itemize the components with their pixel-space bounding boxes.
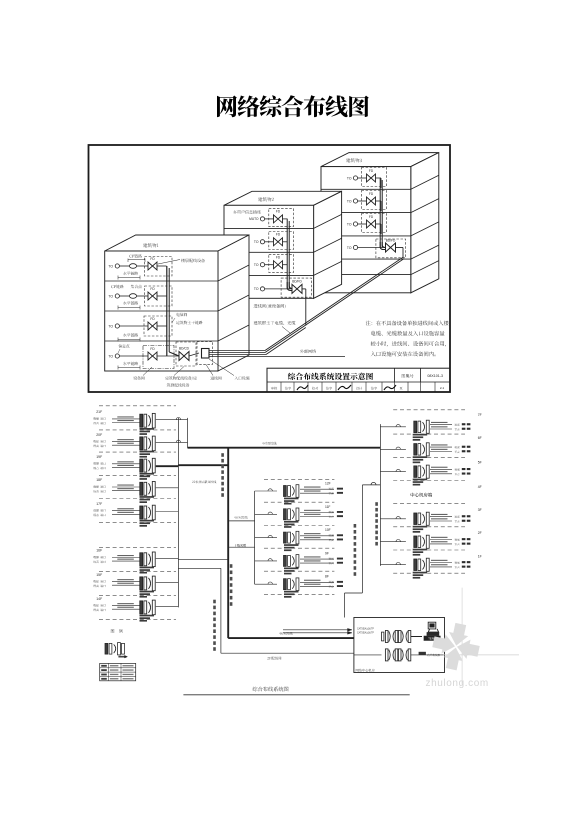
- svg-text:TO: TO: [254, 287, 259, 291]
- machine room row1 symbols: [385, 631, 388, 643]
- B1 floor2 wire TO-CP: [119, 295, 129, 297]
- B1 floor1 CP consolidation point: [129, 264, 136, 269]
- group D row 3 feed wire: [380, 471, 406, 473]
- group B row 14F panel text: [140, 615, 155, 617]
- B3 riser backbone: [379, 178, 381, 248]
- group A row 21F cable labels: [117, 416, 134, 417]
- svg-text:10F: 10F: [325, 528, 331, 532]
- B1 floor3 telecom room label: [177, 313, 188, 317]
- group C row 9F feed wire: [255, 560, 277, 562]
- B2 floor2 FD dashed box: [269, 232, 294, 250]
- page title: [217, 95, 369, 117]
- B1 floor1 equipment label: [181, 259, 205, 263]
- svg-text:2-1: 2-1: [440, 386, 445, 390]
- machine room feed to group D: [362, 484, 380, 486]
- B2 floor3 riser stub: [283, 264, 288, 266]
- group D row 6 patch panel: [414, 559, 417, 571]
- group A thick feeder to trunk: [178, 464, 228, 466]
- legend table: [100, 663, 136, 680]
- group A row 19F patch panel: [140, 459, 143, 472]
- svg-text:15F: 15F: [96, 573, 102, 577]
- B1 floor1 wire TO-CP: [119, 265, 129, 267]
- svg-text:6F: 6F: [478, 436, 482, 440]
- group B row 14F patch panel: [140, 601, 143, 614]
- group D row 6 output wires: [430, 562, 452, 564]
- group D row 2 port marks: [462, 446, 466, 448]
- B2 BD/FD distributor: [292, 284, 297, 293]
- campus backbone label: [254, 321, 296, 325]
- building B2 outline: [224, 191, 342, 205]
- svg-text:4F: 4F: [478, 485, 482, 489]
- group C row 8F patch panel: [284, 579, 287, 590]
- group D row 6 port labels: [455, 562, 460, 564]
- machine room riser thin L: [220, 568, 222, 653]
- group C row 11F feed wire: [255, 513, 277, 515]
- vertical cable label col 5: [354, 524, 357, 528]
- group A row 18F patch panel: [140, 482, 143, 495]
- main trunk top horizontal: [188, 447, 381, 449]
- svg-text:FD: FD: [369, 215, 374, 219]
- B1 entrance dashed box: [197, 342, 213, 365]
- group C row 9F port labels: [329, 558, 334, 560]
- svg-text:TO: TO: [347, 222, 352, 226]
- group D row 2 port labels: [455, 446, 460, 448]
- group D row 5 cable labels: [431, 537, 448, 538]
- vertical cable label col 4: [375, 502, 378, 506]
- svg-text:TO: TO: [108, 354, 113, 358]
- svg-text:TO: TO: [254, 240, 259, 244]
- group D row 5 panel text: [413, 549, 428, 551]
- group A row 17F input wires: [112, 510, 140, 512]
- group D row 1 patch panel: [414, 421, 417, 433]
- group B feeder to trunk: [178, 558, 228, 560]
- B3 floor4 wire TO-BD: [358, 247, 385, 249]
- machine room row2 wire in: [354, 654, 382, 656]
- trunk branch to group C 2: [228, 546, 254, 548]
- title block atlas-no label: [402, 374, 414, 378]
- B1 floor2 horizontal-link label: [123, 301, 138, 305]
- machine room row1 wire to terminal: [411, 636, 422, 638]
- B3 floor1 FD dashed box: [362, 168, 387, 187]
- group D row 3 port marks: [462, 468, 466, 470]
- svg-text:3F: 3F: [478, 508, 482, 512]
- group C row 8F output wires: [300, 581, 334, 583]
- svg-text:9F: 9F: [325, 551, 329, 555]
- group D row 6 feed wire: [380, 564, 406, 566]
- group D row 4 cable labels: [431, 514, 448, 515]
- group C row 12F output wires: [300, 488, 334, 490]
- B1 floor2 wire CP-FD: [137, 295, 148, 297]
- external network line: [209, 356, 345, 358]
- terminal base: [427, 632, 440, 636]
- group D row 4 panel text: [413, 526, 428, 528]
- feeder count label: [192, 481, 216, 484]
- group A row 21F panel text: [140, 428, 155, 430]
- group D row 2 feed wire: [380, 448, 406, 450]
- group D row 4 patch panel: [414, 513, 417, 525]
- group C row 11F port labels: [329, 511, 334, 513]
- vertical cable label col 1: [221, 453, 224, 457]
- group A row 20F patch panel: [140, 437, 143, 450]
- svg-text:1F: 1F: [478, 554, 482, 558]
- group A row 17F panel text: [140, 520, 155, 522]
- group C row 12F cable labels: [304, 487, 321, 488]
- B1 floor4 wire FD-BD: [157, 355, 179, 357]
- B1 floor2 riser stub: [157, 295, 167, 297]
- machine room row2 fiber label: [419, 652, 426, 655]
- B1 floor4 info-point label: [118, 344, 129, 348]
- group B row 16F port labels: [93, 556, 105, 559]
- B1 floor4 wire TO-FD: [119, 355, 148, 357]
- B1 floor3 FD distributor: [148, 322, 153, 330]
- group B row 14F output wire: [156, 605, 179, 607]
- svg-text:TO: TO: [108, 264, 113, 268]
- title block: [267, 368, 450, 392]
- campus backbone cable bundle: [209, 350, 265, 352]
- group D row 4 output wires: [430, 516, 452, 518]
- B1 floor1 FD dashed box: [145, 257, 173, 277]
- group B row 16F cable labels: [117, 555, 134, 556]
- svg-text:FD: FD: [369, 169, 374, 173]
- svg-text:TO: TO: [108, 324, 113, 328]
- svg-text:zhulong.com: zhulong.com: [426, 678, 489, 689]
- B2 floor1 FD distributor: [274, 215, 279, 223]
- svg-text:TO: TO: [108, 294, 113, 298]
- group C row 11F cable labels: [304, 510, 321, 511]
- top figure frame: [89, 145, 451, 392]
- group C row 9F output wires: [300, 558, 334, 560]
- group D row 2 output wires: [430, 446, 452, 448]
- group A row 20F input wires: [112, 441, 140, 443]
- group B feeder to machine room riser: [178, 567, 221, 569]
- group D row 5 feed wire: [380, 541, 406, 543]
- watermark crosshair: [444, 654, 519, 656]
- group D row 2 patch panel: [414, 444, 417, 456]
- group C row 8F port labels: [329, 581, 334, 583]
- group B row 16F output wire: [156, 557, 179, 559]
- group C row 8F port marks: [337, 581, 343, 583]
- svg-text:16F: 16F: [96, 549, 102, 553]
- svg-text:2F: 2F: [478, 531, 482, 535]
- B2 floor2 wire: [265, 241, 274, 243]
- B2 floor1 wire: [265, 218, 274, 220]
- group A row 20F port labels: [93, 440, 105, 443]
- watermark pinwheel arrows: [431, 622, 480, 671]
- legend pointer: [118, 656, 125, 658]
- svg-text:FD: FD: [276, 210, 281, 214]
- group D row 3 patch panel: [414, 466, 417, 478]
- group D row 5 patch panel: [414, 536, 417, 548]
- riser room label: [267, 657, 281, 660]
- bottom caption: [253, 687, 289, 692]
- svg-text:14F: 14F: [96, 597, 102, 601]
- B1 floor2 FD dashed box: [145, 286, 173, 306]
- B1 floor2 CP-link label: [111, 285, 123, 289]
- main trunk riser: [227, 448, 229, 638]
- group A row 18F port labels: [93, 486, 105, 489]
- building B2 label: [258, 197, 274, 201]
- group A row 17F port labels: [93, 509, 105, 512]
- label equipment room: [134, 376, 145, 380]
- group A row 18F input wires: [112, 486, 140, 488]
- title block drawing name: [288, 373, 373, 380]
- vertical cable label col 2: [230, 564, 233, 568]
- svg-text:18F: 18F: [96, 478, 102, 482]
- B3 BD exit wire down: [396, 247, 404, 249]
- group B row 15F cable labels: [117, 579, 134, 580]
- group C row 11F patch panel: [284, 509, 287, 520]
- group C row 9F port marks: [337, 558, 343, 560]
- B2 riser elbow into BD: [287, 282, 292, 291]
- B1 BD/CD dashed box: [176, 342, 196, 366]
- machine room row1 input arrows: [283, 629, 352, 631]
- group A row 20F panel text: [140, 451, 155, 453]
- group C row 10F port marks: [337, 534, 343, 536]
- B3 floor2 riser stub: [376, 200, 382, 202]
- group B row 15F input wires: [112, 581, 140, 583]
- building B3 floor lines: [321, 188, 411, 190]
- svg-text:21F: 21F: [96, 410, 102, 414]
- group B row 16F input wires: [112, 557, 140, 559]
- svg-text:BD/FD: BD/FD: [292, 280, 302, 284]
- B2 floor1 FD dashed box: [269, 209, 294, 227]
- group A row 19F output wire: [156, 465, 179, 467]
- group D row 5 port marks: [462, 538, 466, 540]
- group C row 12F port labels: [329, 488, 334, 490]
- B3 floor2 FD dashed box: [362, 191, 387, 210]
- group C row 10F patch panel: [284, 532, 287, 543]
- group B row 14F port labels: [93, 604, 105, 607]
- group A row 19F port labels: [93, 462, 105, 465]
- label entrance facility: [235, 376, 250, 380]
- group D left bus: [379, 424, 381, 566]
- group C row 9F cable labels: [304, 556, 321, 557]
- svg-text:FD: FD: [369, 192, 374, 196]
- group C row 9F patch panel: [284, 555, 287, 566]
- terminal computer icon: [428, 622, 438, 632]
- machine room box: [354, 618, 445, 673]
- label building distributor: [165, 376, 197, 380]
- group A row 20F output wire: [156, 441, 188, 443]
- B1 BD/CD distributor: [179, 352, 184, 361]
- B1 floor3 backbone label: [176, 321, 202, 325]
- svg-text:FD: FD: [150, 287, 155, 291]
- group C row 12F panel text: [284, 498, 299, 500]
- B3 BD/FD dashed box: [376, 239, 406, 258]
- building B1 outline: [105, 235, 249, 251]
- group D row 1 port labels: [455, 424, 460, 426]
- machine room label: [356, 669, 375, 672]
- group C row 10F output wires: [300, 535, 334, 537]
- group D row 2 cable labels: [431, 444, 448, 445]
- B2 floor3 wire: [265, 264, 274, 266]
- legend symbols: [105, 643, 108, 654]
- B2 riser backbone: [286, 219, 288, 289]
- B1 floor1 wire CP-FD: [137, 265, 148, 267]
- machine room row2 symbols: [385, 649, 388, 661]
- group A row 18F panel text: [140, 496, 155, 498]
- group A row 19F panel text: [140, 473, 155, 475]
- signature scribbles: [297, 385, 308, 390]
- B3 floor2 FD distributor: [367, 197, 372, 205]
- svg-text:TO: TO: [347, 199, 352, 203]
- group D row 1 panel text: [413, 434, 428, 436]
- svg-text:BD/CD: BD/CD: [179, 347, 190, 351]
- B1 floor1 CP-link dimension label: [129, 254, 141, 257]
- B1 floor3 FD dashed box: [144, 316, 172, 336]
- svg-text:TO: TO: [254, 263, 259, 267]
- group D row 4 feed wire: [380, 518, 406, 520]
- group D row 6 port marks: [462, 561, 466, 563]
- svg-text:5F: 5F: [478, 461, 482, 465]
- B1 riser backbone: [166, 266, 168, 356]
- svg-text:FD: FD: [150, 347, 155, 351]
- group D row 4 port labels: [455, 516, 460, 518]
- group A row 17F output wire: [156, 511, 179, 513]
- group A bus 2: [187, 418, 189, 448]
- svg-text:12F: 12F: [325, 482, 331, 486]
- B1 floor3 wire TO-FD: [119, 325, 148, 327]
- machine room row2 wire right: [411, 654, 444, 656]
- svg-text:TO: TO: [347, 246, 352, 250]
- group C row 10F port labels: [329, 534, 334, 536]
- wiring group B dashed separators: [99, 546, 176, 548]
- B1 floor3 riser stub: [157, 325, 167, 327]
- svg-text:11F: 11F: [325, 505, 330, 509]
- svg-text:20F: 20F: [96, 433, 102, 437]
- svg-text:17F: 17F: [96, 502, 102, 506]
- svg-text:08X101-3: 08X101-3: [427, 374, 443, 378]
- group B row 15F patch panel: [140, 577, 143, 590]
- B3 floor1 wire TO-FD: [358, 177, 367, 179]
- trunk branch to group C 1: [228, 520, 254, 522]
- group D row 5 port labels: [455, 539, 460, 541]
- group C row 9F panel text: [284, 568, 299, 570]
- group A row 17F cable labels: [117, 508, 134, 509]
- B2 floor2 FD distributor: [274, 238, 279, 246]
- B2 floor1 riser stub: [283, 218, 288, 220]
- B2 BD/FD dashed box: [281, 278, 311, 297]
- group A row 21F input wires: [112, 418, 140, 420]
- group B row 14F cable labels: [117, 603, 134, 604]
- group C row 12F feed wire: [255, 490, 277, 492]
- B2 floor1 MUTO label: [233, 210, 261, 214]
- group A row 17F patch panel: [140, 506, 143, 519]
- group D row 3 port labels: [455, 468, 460, 470]
- B2 floor3 FD distributor: [274, 261, 279, 269]
- terminal label: [424, 636, 440, 640]
- group B row 16F patch panel: [140, 553, 143, 566]
- B3 floor3 FD dashed box: [362, 214, 387, 233]
- group D dashed separators: [393, 409, 465, 411]
- group C row 11F port marks: [337, 511, 343, 513]
- title block signature row: [280, 382, 282, 392]
- center machine room label: [411, 493, 433, 497]
- B3 riser elbow into BD: [380, 242, 385, 250]
- svg-text:MUTO: MUTO: [249, 217, 259, 221]
- B1 floor2 CP consolidation point: [129, 294, 136, 299]
- group B row 15F output wire: [156, 581, 179, 583]
- group A row 18F cable labels: [117, 485, 134, 486]
- B1 floor1 horizontal-link label: [123, 272, 138, 276]
- group C row 10F feed wire: [255, 537, 277, 539]
- svg-text:TO: TO: [347, 176, 352, 180]
- svg-text:FD: FD: [150, 317, 155, 321]
- group C row 8F feed wire: [255, 583, 277, 585]
- external network label: [300, 349, 316, 353]
- B1 floor2 FD distributor: [148, 292, 153, 300]
- group B row 15F port labels: [93, 580, 105, 583]
- building B2 floor lines: [224, 227, 314, 229]
- group A row 19F cable labels: [117, 461, 134, 462]
- B3 floor3 riser stub: [376, 223, 382, 225]
- group C dashed separators: [264, 478, 334, 480]
- svg-text:7F: 7F: [478, 413, 482, 417]
- building B3 outline: [321, 153, 439, 167]
- B2 floor4 wire TO-BD: [265, 288, 292, 290]
- trunk bottom horizontal: [228, 637, 354, 639]
- group A row 20F cable labels: [117, 439, 134, 440]
- group D row 1 cable labels: [431, 422, 448, 423]
- vertical cable label col 3: [213, 600, 216, 604]
- B1 floor2 consolidation label: [131, 285, 142, 289]
- building B3 label: [346, 158, 362, 162]
- B2 entrance label: [254, 304, 286, 308]
- group C left bus: [254, 491, 256, 584]
- group C row 10F panel text: [284, 544, 299, 546]
- group A row 21F port labels: [93, 417, 105, 420]
- B2 floor3 FD dashed box: [269, 254, 294, 272]
- group D row 1 feed wire: [380, 426, 406, 428]
- B2 BD exit wire down: [302, 288, 306, 290]
- building B1 floor lines: [105, 280, 218, 282]
- B1 floor4 horizontal-link label: [123, 362, 138, 366]
- B1 floor3 horizontal-link label: [123, 333, 138, 337]
- group C row 8F panel text: [284, 591, 299, 593]
- B3 floor1 FD distributor: [367, 174, 372, 182]
- group A row 19F input wires: [112, 463, 140, 465]
- B1 entrance facility box: [202, 349, 210, 359]
- group C row 11F panel text: [284, 521, 299, 523]
- group D row 1 port marks: [462, 423, 466, 425]
- B3 floor2 wire TO-FD: [358, 200, 367, 202]
- group A bus 1: [177, 418, 179, 608]
- group C row 10F cable labels: [304, 533, 321, 534]
- group C row 12F patch panel: [284, 486, 287, 497]
- svg-text:8F: 8F: [325, 575, 329, 579]
- group D row 3 panel text: [413, 479, 428, 481]
- B3 floor3 FD distributor: [367, 220, 372, 228]
- group B row 16F panel text: [140, 567, 155, 569]
- B1 floor4 equipment room dash-dot box: [143, 346, 174, 369]
- group D row 6 cable labels: [431, 560, 448, 561]
- group B row 14F input wires: [112, 605, 140, 607]
- group C row 12F port marks: [337, 488, 343, 490]
- B1 wire BD to entrance: [189, 353, 199, 356]
- group D row 4 port marks: [462, 515, 466, 517]
- B2 floor2 riser stub: [283, 241, 288, 243]
- bottom caption underline: [183, 694, 409, 696]
- B1 floor4 FD distributor: [148, 352, 153, 360]
- group A row 18F output wire: [156, 487, 179, 489]
- trunk label: [262, 442, 276, 445]
- group C row 11F output wires: [300, 512, 334, 514]
- B1 floor1 riser stub: [157, 265, 167, 267]
- svg-text:FD: FD: [150, 257, 155, 261]
- building B1 label: [143, 243, 158, 247]
- wiring group A dashed separators: [99, 405, 176, 407]
- machine room row1 input bar: [382, 632, 384, 641]
